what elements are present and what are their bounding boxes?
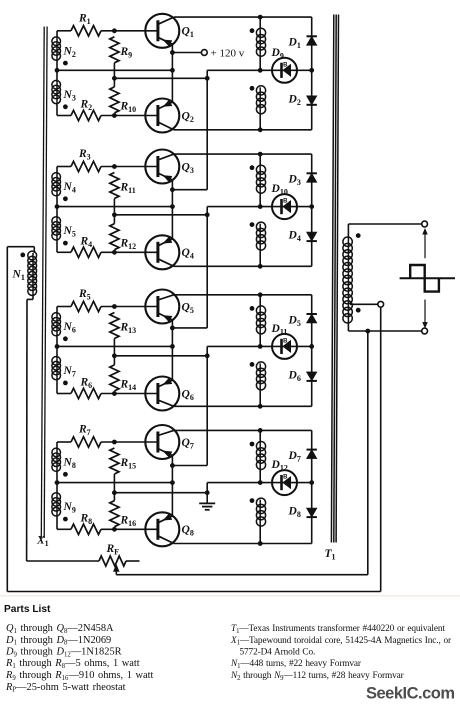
diode D4 [307,232,317,241]
resistor R13 [110,313,119,356]
label T1 [325,548,336,562]
wire coil to R5 [57,306,71,308]
resistor R5 [71,301,101,311]
wire diode column [311,295,313,407]
node R13/R14 junction [112,353,117,358]
scan artifact line [0,595,460,596]
wire column down to next stage [172,215,207,328]
node +120v tee [170,50,175,55]
secondary polarity dot top [356,233,361,238]
wire N1 left lead down [6,247,8,592]
N3 polarity dot [63,104,68,109]
node feed-in junction [170,326,175,331]
label Q6 [182,388,194,402]
wire coil to R4 [57,251,71,253]
wire column corner [206,483,208,493]
wire secondary top lead [348,223,421,225]
parts list left line 1 [6,623,114,635]
parts list left line 4 [5,658,140,670]
diode D5 [307,314,317,323]
winding N9 [52,483,61,530]
winding primary upper [256,430,265,482]
wire rj to column [114,214,207,216]
resistor R2 [71,110,101,120]
node R11/R12 junction [112,212,117,217]
wire mid-right [207,206,312,208]
watermark SeekIC.com [366,685,455,703]
N7 polarity dot [63,381,68,386]
winding primary lower [256,362,265,406]
wire coil to R7 [57,441,71,443]
svg-text:Parts List: Parts List [4,604,51,615]
wire R1 to base node [101,30,157,32]
node winding mid [258,68,263,73]
label R5 [78,288,91,302]
transistor Q7 [145,425,179,459]
node winding mid [258,480,263,485]
svg-text:+ 120 v: + 120 v [211,48,245,60]
transformer core T1 laminations [331,15,338,543]
winding N2 [52,31,61,71]
label R1 [78,12,91,26]
polarity dot lower [250,362,255,367]
winding N7 [52,346,61,393]
terminal output bottom [422,328,428,334]
wire mid (emitter node) [57,69,172,71]
parts list right line 4 [230,659,362,670]
node emitter junction [170,344,175,349]
polarity dot upper [250,442,255,447]
winding N1 [7,247,36,300]
parts list left line 5 [5,670,154,682]
diode D12 (circled) [272,470,297,495]
polarity dot lower [250,86,255,91]
node winding top [258,152,263,157]
wire mid (emitter node) [57,206,172,208]
resistor R12 [110,215,119,250]
label N4 [63,181,76,195]
wire Q1 collector to diode column [174,16,312,18]
label R12 [120,237,137,251]
polarity dot upper [250,28,255,33]
label +120v [211,48,245,60]
node column junction [205,76,210,81]
label R9 [120,46,133,60]
node N4/N5 junction [55,204,60,209]
wire mid-right [207,69,312,71]
resistor R14 [110,356,119,391]
label D10 [271,183,288,197]
svg-text:SeekIC.com: SeekIC.com [366,685,455,703]
diode D3 [307,173,317,182]
wire column down to next stage [172,356,207,466]
wire Q2 collector to diode column [174,129,312,131]
node emitter junction [170,480,175,485]
label Q3 [182,161,194,175]
label R15 [120,457,137,471]
svg-text:T1—Texas Instruments transform: T1—Texas Instruments transformer #440220… [231,623,445,635]
label R4 [80,235,93,249]
wire coil to R1 [57,30,71,32]
wire mid-right [207,482,312,484]
wire R8 to base node [101,528,157,530]
wire diode column [311,17,313,130]
node emitter junction [170,204,175,209]
wire coil to R2 [57,115,71,117]
winding primary upper [256,154,265,207]
wire R2 to base node [101,115,157,117]
transistor Q5 [145,290,179,324]
label N5 [63,225,76,239]
wire bottom feedback [7,307,380,591]
winding primary upper [256,17,265,70]
label R7 [78,424,91,438]
label R16 [120,514,137,528]
label Q2 [182,110,194,124]
diode D2 [307,96,317,105]
node winding mid [258,204,263,209]
N6 polarity dot [63,336,68,341]
wire coil to R3 [57,166,71,168]
label R14 [120,379,137,393]
wire Q8 collector to diode column [174,543,312,545]
resistor R9 [110,37,119,79]
wire column corner [206,70,208,78]
wire emitter vertical [171,456,173,516]
label N2 [63,45,76,59]
wire RF left lead [27,560,99,562]
label R8 [80,512,93,526]
parts list left line 6 [5,682,126,694]
winding primary lower [256,222,265,266]
label D3 [288,174,301,188]
diode D7 [307,450,317,459]
wire column corner [206,346,208,355]
svg-text:R9 through R16—910 ohms, 1 wat: R9 through R16—910 ohms, 1 watt [5,670,154,682]
arrow up (output) [423,229,428,258]
node N6/N7 junction [55,344,60,349]
label R11 [120,182,136,196]
svg-text:N2 through N9—112 turns, #28 h: N2 through N9—112 turns, #28 heavy Formv… [230,671,405,682]
node wiper return junction [365,329,370,334]
polarity dot upper [250,165,255,170]
wire coil to R6 [57,393,71,395]
terminal tap [378,301,384,307]
resistor R7 [71,437,101,447]
label D7 [288,450,301,464]
square wave symbol [400,265,455,292]
node column junction [205,212,210,217]
wire emitter vertical [171,44,173,102]
label Q8 [182,524,194,538]
node diode junction [309,344,314,349]
node R3/R11 junction [112,164,117,169]
label N9 [63,501,76,514]
winding primary upper [256,295,265,347]
transistor Q3 [145,150,179,184]
terminal +120v [201,50,207,56]
label D4 [288,230,301,244]
winding N3 [52,70,61,115]
label Q7 [182,437,194,451]
svg-text:X1—Tapewound toroidal core, 51: X1—Tapewound toroidal core, 51425-4A Mag… [230,636,452,647]
label D1 [288,37,301,51]
node winding bottom [258,541,263,546]
wire Q5 collector to diode column [174,294,312,296]
wire Q4 collector to diode column [174,265,312,267]
wire secondary bottom lead [348,330,421,332]
node R5/R13 junction [112,304,117,309]
label Q5 [182,301,194,315]
parts list left line 2 [5,635,111,647]
wire R4 to base node [101,251,157,253]
transistor Q2 [145,99,179,133]
node diode junction [309,480,314,485]
node N2/N3 junction [55,68,60,73]
wire secondary tap [350,303,378,305]
label RF [106,543,120,557]
wire to +120v terminal [172,52,201,54]
diode D6 [307,372,317,381]
node winding top [258,15,263,20]
resistor R10 [110,78,119,113]
wire Q6 collector to diode column [174,405,312,407]
diode D10 (circled) [272,194,297,219]
wire coil to R8 [57,528,71,530]
ground [199,503,215,509]
svg-text:B: B [283,338,288,344]
svg-text:B: B [283,62,288,68]
node feed-in junction [170,187,175,192]
parts list right line 5 [230,671,405,682]
label N8 [63,457,76,471]
label R2 [80,99,93,113]
node column junction [205,353,210,358]
N9 polarity dot [63,517,68,522]
parts list heading [4,604,51,615]
node column junction [205,490,210,495]
wire R3 to base node [101,166,157,168]
diode D11 (circled) [272,334,297,359]
label N7 [63,365,76,379]
wire column down to next stage [172,78,207,189]
wire Q3 collector to diode column [174,153,312,155]
wire rj to column [114,492,207,494]
node diode junction [309,204,314,209]
node feed-in junction [170,463,175,468]
label R6 [80,377,93,391]
label D6 [288,369,301,383]
label X1 [36,535,49,549]
parts list left line 3 [5,647,122,659]
winding primary lower [256,498,265,543]
resistor R3 [71,161,101,171]
resistor R8 [71,524,101,534]
label N3 [63,89,76,103]
node winding bottom [258,404,263,409]
node R8/R16 junction [112,527,117,532]
resistor R11 [110,173,119,215]
wire N1 right lead down [26,299,28,561]
toroid core X1 (two slanted lines) [41,27,47,539]
wire wiper to secondary bottom [116,331,367,575]
node R2/R10 junction [112,113,117,118]
label R10 [120,101,137,115]
winding primary lower [256,86,265,130]
polarity dot lower [250,222,255,227]
label D11 [271,323,288,337]
svg-text:R1 through R8—5 ohms, 1 watt: R1 through R8—5 ohms, 1 watt [5,658,140,670]
N2 polarity dot [63,61,68,66]
wire diode column [311,430,313,543]
winding N8 [52,442,61,483]
wire mid (emitter node) [57,482,172,484]
svg-text:N1—448 turns, #22 heavy Formva: N1—448 turns, #22 heavy Formvar [230,659,362,670]
label D5 [288,314,301,328]
transistor Q6 [145,377,179,411]
winding N4 [52,167,61,207]
parts list right line 3 [240,648,316,658]
secondary polarity dot bottom [356,308,361,313]
label R13 [120,322,137,336]
label N1 [12,269,25,283]
node emitter junction [170,68,175,73]
node R1/R9 junction [112,28,117,33]
node winding mid [258,344,263,349]
node winding top [258,428,263,433]
node diode junction [309,68,314,73]
node winding top [258,292,263,297]
node winding bottom [258,264,263,269]
transistor Q8 [145,512,179,546]
wire column to ground [206,493,208,504]
polarity dot upper [250,306,255,311]
label Q1 [182,26,194,40]
wire R6 to base node [101,393,157,395]
svg-text:Q1 through Q8—2N458A: Q1 through Q8—2N458A [6,623,114,635]
svg-text:B: B [283,199,288,205]
wire R5 to base node [101,306,157,308]
wire Q7 collector to diode column [174,429,312,431]
transistor Q1 [145,14,179,48]
svg-text:D1 through D8—1N2069: D1 through D8—1N2069 [5,635,111,647]
winding secondary [343,224,352,331]
svg-text:5772-D4 Arnold Co.: 5772-D4 Arnold Co. [240,648,316,658]
transistor Q4 [145,235,179,269]
winding N5 [52,207,61,253]
resistor R6 [71,388,101,398]
node winding bottom [258,127,263,132]
polarity dot lower [250,498,255,503]
diode D9 (circled) [272,58,297,83]
resistor R4 [71,247,101,257]
node R7/R15 junction [112,440,117,445]
svg-text:B: B [283,475,288,481]
terminal output top [422,221,428,227]
winding N6 [52,307,61,347]
label D2 [288,93,301,107]
node R6/R14 junction [112,391,117,396]
label D8 [288,506,301,520]
parts list right line 1 [231,623,445,635]
rheostat RF [99,556,140,566]
node R15/R16 junction [112,490,117,495]
wire diode column [311,154,313,266]
resistor R15 [110,448,119,493]
wire rj to column [114,77,207,79]
arrow down (output) [423,300,428,328]
N1 polarity dot [20,253,25,258]
svg-text:RP—25-ohm 5-watt rheostat: RP—25-ohm 5-watt rheostat [5,682,126,694]
label N6 [63,321,76,335]
N8 polarity dot [63,472,68,477]
node N8/N9 junction [55,480,60,485]
wire mid-right [207,345,312,347]
wire mid (emitter node) [57,345,172,347]
node R4/R12 junction [112,250,117,255]
resistor R16 [110,493,119,527]
diode D8 [307,508,317,517]
parts list right line 2 [230,636,452,647]
label R3 [78,148,91,162]
svg-text:D9 through D12—1N1825R: D9 through D12—1N1825R [5,647,122,659]
wire column corner [206,207,208,215]
label D9 [271,47,284,61]
label Q4 [182,247,194,261]
diode D1 [307,36,317,45]
wire R7 to base node [101,441,157,443]
wire emitter vertical [171,180,173,239]
N5 polarity dot [63,241,68,246]
wire rj to column [114,355,207,357]
rheostat RF wiper arrow [114,565,120,575]
node R9/R10 junction [112,76,117,81]
label D12 [271,459,288,473]
wire emitter vertical [171,320,173,380]
N4 polarity dot [63,196,68,201]
resistor R1 [71,26,101,36]
